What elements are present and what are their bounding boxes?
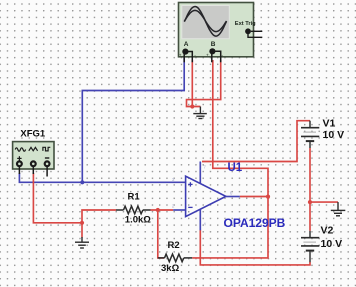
wire: blue net from scope channel A down, left and down to input node (82, 57, 184, 182)
wire: scope channel A right lead down to scope ground junction (191, 60, 193, 107)
svg-text:XFG1: XFG1 (20, 129, 46, 140)
pin 4: negative supply stub (199, 209, 201, 230)
resistor R1 (116, 206, 151, 214)
pin 7: positive supply stub (199, 162, 201, 184)
wire: negative supply rail from V2 bottom to op-amp pin 4 (200, 230, 310, 265)
node: red junction at scope ground (190, 104, 194, 108)
wire: ground node up and right to R1 left lead (82, 210, 116, 223)
wire: feedback from R2 right lead up to output junction (192, 197, 268, 258)
svg-text:+: + (179, 53, 182, 58)
svg-text:V1: V1 (323, 117, 336, 129)
wire: blue net XFG1 plus terminal right to op-amp non-inverting input (19, 173, 185, 182)
wire: scope channel B left lead down and right to op-amp output node (213, 60, 268, 197)
node: red junction between V1 and V2 (308, 200, 312, 204)
plus sign: non-inverting input marker (188, 182, 192, 186)
svg-text:+: + (206, 53, 209, 58)
svg-text:R2: R2 (168, 240, 180, 251)
wire: supply midpoint junction down to V2 top (309, 202, 311, 231)
lead: XFG1 plus terminal stub (18, 167, 20, 174)
svg-text:A: A (184, 41, 189, 48)
svg-text:U1: U1 (228, 162, 243, 174)
svg-text:R1: R1 (128, 192, 141, 203)
terminal: XFG1 plus (17, 161, 22, 166)
node: red junction at XFG1 ground node (80, 221, 84, 225)
oscilloscope screen with two sine traces (182, 6, 230, 39)
minus sign: XFG1 negative terminal marker (45, 157, 49, 159)
svg-text:3: 3 (172, 177, 175, 183)
ground: right ground symbol (331, 202, 346, 216)
icon: triangle wave button (29, 147, 38, 150)
svg-text:7: 7 (203, 165, 206, 171)
lead: XFG1 common terminal stub (32, 167, 34, 174)
wire: op-amp output to output junction (240, 196, 268, 198)
svg-text:2: 2 (172, 204, 175, 210)
pin 2: inverting input stub (173, 209, 185, 211)
terminal: channel B with leads (206, 48, 224, 62)
svg-text:1.0kΩ: 1.0kΩ (125, 215, 151, 226)
wire: scope channel B right lead down, left, to scope ground (187, 60, 221, 107)
svg-text:10 V: 10 V (321, 238, 343, 250)
terminal: XFG1 minus (45, 161, 50, 166)
pin 6: output stub (226, 196, 240, 198)
wire: R1 right lead to inverting input node (151, 209, 174, 211)
minus sign: inverting input marker (188, 206, 192, 208)
wire: V1 bottom to supply midpoint junction (309, 148, 311, 202)
terminal: external trigger with two stubs (245, 28, 262, 37)
svg-text:6: 6 (230, 191, 233, 197)
op-amp U1 triangle body (186, 176, 226, 216)
oscilloscope XSC1 body (179, 3, 254, 57)
battery V2 (301, 231, 319, 262)
wire: positive supply rail from op-amp pin 7 to V1 top (202, 121, 310, 162)
ground: left ground symbol (75, 237, 89, 248)
svg-text:3kΩ: 3kΩ (161, 263, 180, 274)
node: red junction at inverting input (156, 208, 160, 212)
wire: XFG1 common terminal down and right to ground node (33, 173, 82, 223)
wire: supply midpoint junction to right ground (310, 201, 338, 203)
ground: scope ground symbol (193, 107, 207, 119)
battery V1 (301, 121, 319, 148)
function generator XFG1 body (13, 142, 54, 169)
svg-text:10 V: 10 V (323, 129, 345, 141)
node: blue junction at input node (80, 180, 84, 184)
svg-text:Ext Trig: Ext Trig (235, 21, 256, 27)
resistor R2 (158, 254, 193, 262)
node: red junction at op-amp output (266, 195, 270, 199)
wire: inverting input node down to R2 left lead (158, 210, 165, 258)
icon: square wave button (43, 147, 50, 151)
plus sign: XFG1 positive terminal marker (17, 156, 21, 160)
wire: stub from ground node down to left ground (81, 223, 83, 238)
lead: XFG1 minus terminal stub (unconnected) (46, 167, 48, 177)
svg-text:V2: V2 (321, 225, 334, 237)
svg-text:4: 4 (203, 222, 206, 228)
terminal: XFG1 common (31, 161, 36, 166)
icon: sine wave button (15, 148, 25, 151)
terminal: channel A with leads (179, 49, 197, 63)
svg-text:OPA129PB: OPA129PB (224, 216, 286, 230)
svg-text:B: B (211, 41, 216, 48)
